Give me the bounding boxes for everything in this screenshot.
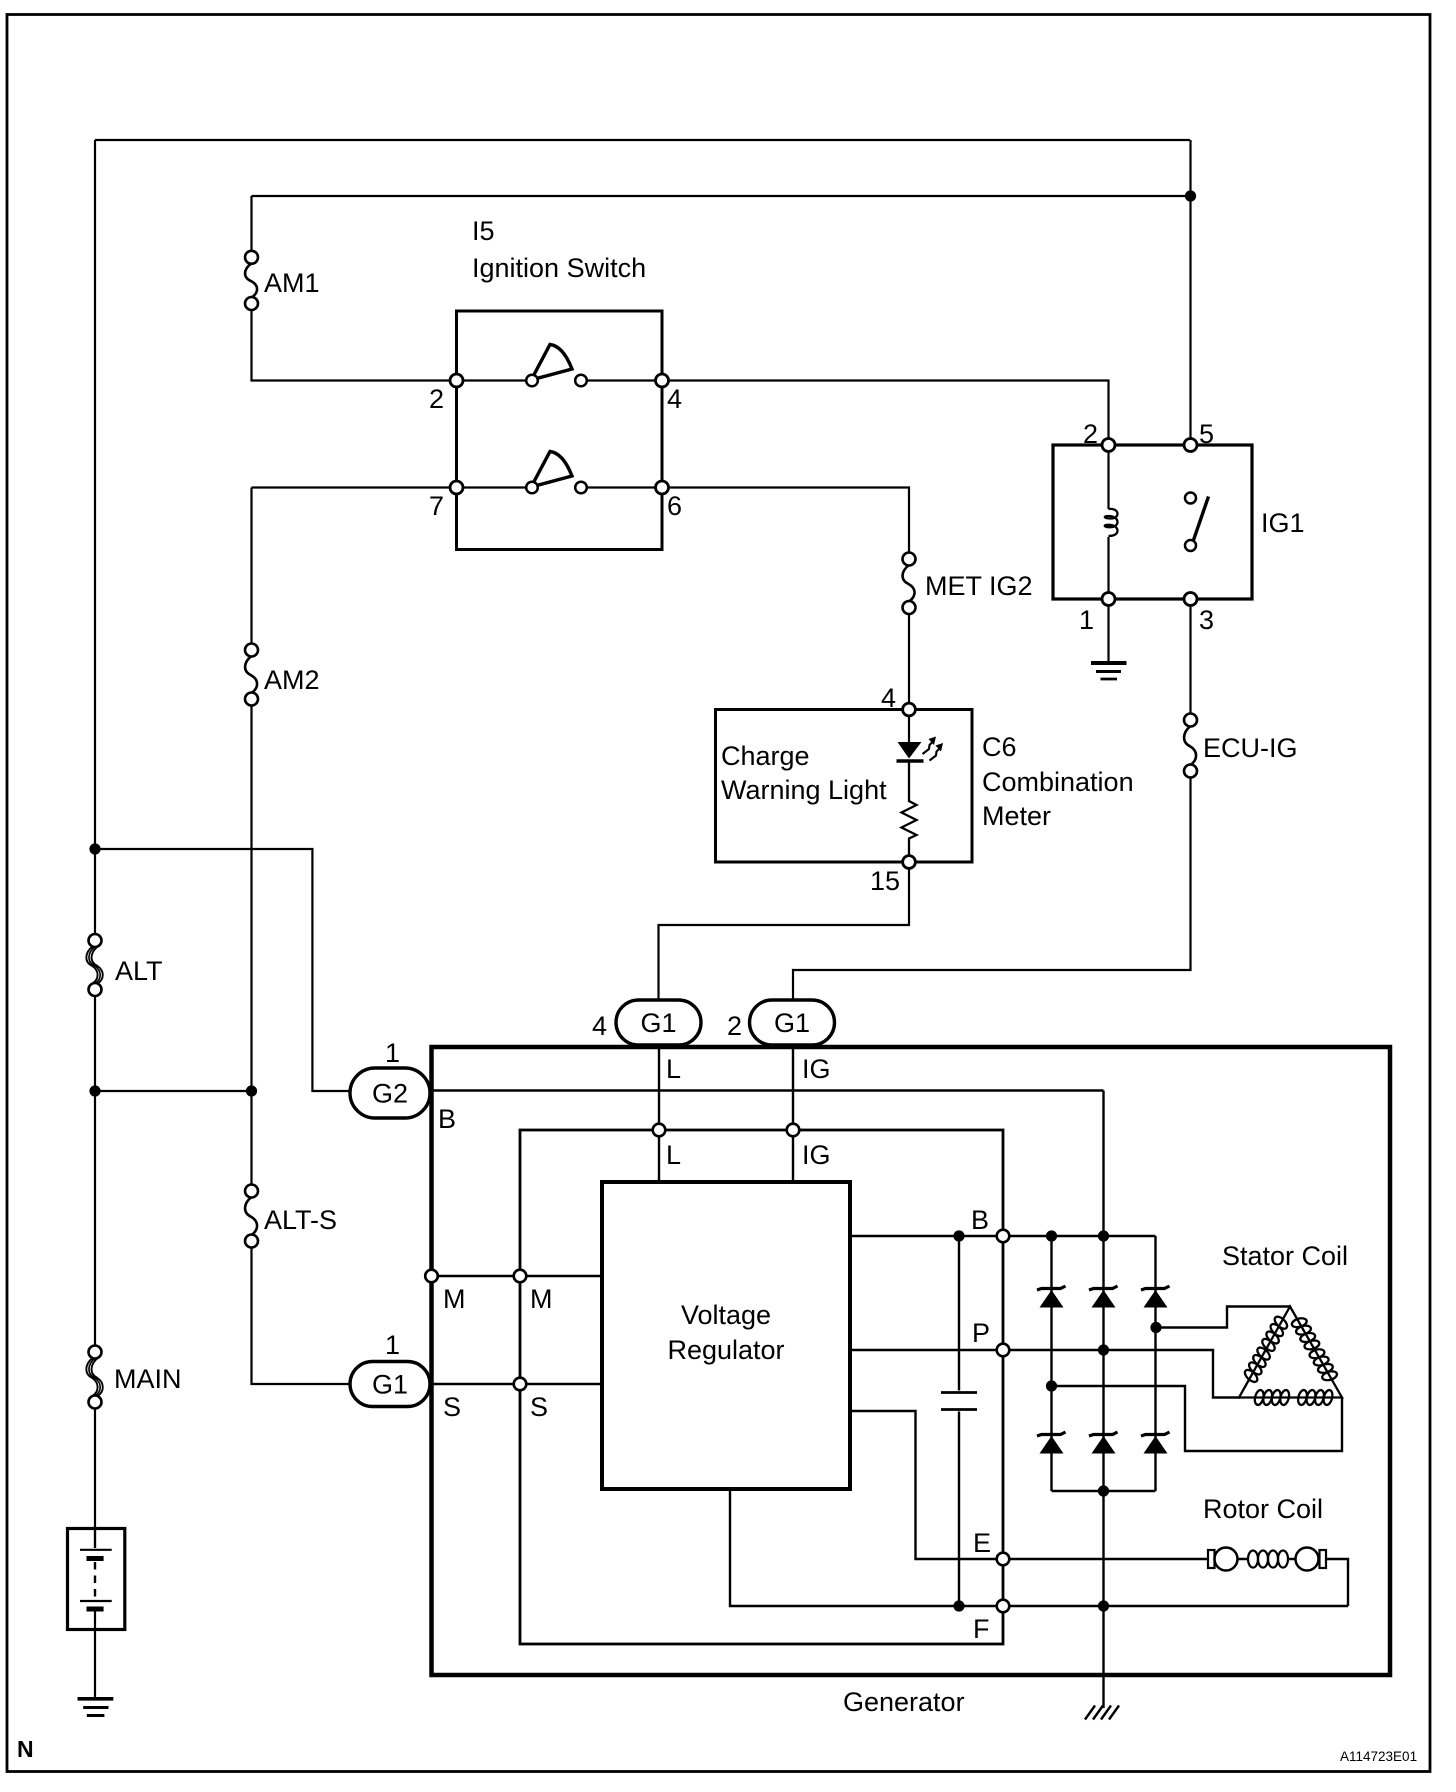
- svg-text:B: B: [971, 1205, 989, 1235]
- svg-text:P: P: [972, 1318, 990, 1348]
- svg-text:1: 1: [385, 1038, 400, 1068]
- svg-text:G1: G1: [640, 1008, 676, 1038]
- svg-text:C6: C6: [982, 732, 1017, 762]
- svg-text:MAIN: MAIN: [114, 1364, 182, 1394]
- svg-text:AM2: AM2: [264, 665, 320, 695]
- svg-text:Regulator: Regulator: [667, 1335, 784, 1365]
- svg-text:S: S: [530, 1392, 548, 1422]
- svg-text:15: 15: [870, 866, 900, 896]
- svg-text:4: 4: [667, 384, 682, 414]
- svg-text:S: S: [443, 1392, 461, 1422]
- svg-text:7: 7: [429, 491, 444, 521]
- svg-text:Meter: Meter: [982, 801, 1051, 831]
- svg-text:5: 5: [1199, 419, 1214, 449]
- svg-text:I5: I5: [472, 216, 495, 246]
- svg-text:2: 2: [429, 384, 444, 414]
- svg-text:G1: G1: [372, 1370, 408, 1400]
- svg-text:3: 3: [1199, 605, 1214, 635]
- svg-text:ECU-IG: ECU-IG: [1203, 733, 1298, 763]
- svg-text:2: 2: [1083, 419, 1098, 449]
- svg-text:Ignition Switch: Ignition Switch: [472, 253, 646, 283]
- svg-text:Warning Light: Warning Light: [721, 775, 887, 805]
- svg-text:B: B: [438, 1104, 456, 1134]
- svg-text:6: 6: [667, 491, 682, 521]
- svg-text:G2: G2: [372, 1079, 408, 1109]
- svg-text:L: L: [666, 1140, 681, 1170]
- svg-text:Rotor Coil: Rotor Coil: [1203, 1494, 1323, 1524]
- svg-text:1: 1: [1079, 605, 1094, 635]
- svg-text:Stator Coil: Stator Coil: [1222, 1241, 1348, 1271]
- svg-text:2: 2: [727, 1011, 742, 1041]
- svg-text:ALT: ALT: [115, 956, 163, 986]
- svg-text:4: 4: [881, 683, 896, 713]
- svg-text:M: M: [530, 1284, 553, 1314]
- svg-text:Generator: Generator: [843, 1687, 965, 1717]
- svg-text:Combination: Combination: [982, 767, 1134, 797]
- svg-text:N: N: [17, 1736, 34, 1762]
- svg-text:M: M: [443, 1284, 466, 1314]
- svg-text:F: F: [973, 1614, 990, 1644]
- svg-text:A114723E01: A114723E01: [1340, 1749, 1417, 1764]
- svg-text:4: 4: [592, 1011, 607, 1041]
- svg-text:IG1: IG1: [1261, 508, 1305, 538]
- svg-text:1: 1: [385, 1330, 400, 1360]
- svg-text:ALT-S: ALT-S: [264, 1205, 337, 1235]
- svg-text:IG: IG: [802, 1054, 831, 1084]
- svg-text:E: E: [973, 1528, 991, 1558]
- svg-text:G1: G1: [774, 1008, 810, 1038]
- svg-text:Charge: Charge: [721, 741, 810, 771]
- svg-text:Voltage: Voltage: [681, 1300, 771, 1330]
- svg-text:MET IG2: MET IG2: [925, 571, 1033, 601]
- svg-text:AM1: AM1: [264, 268, 320, 298]
- svg-text:IG: IG: [802, 1140, 831, 1170]
- svg-text:L: L: [666, 1054, 681, 1084]
